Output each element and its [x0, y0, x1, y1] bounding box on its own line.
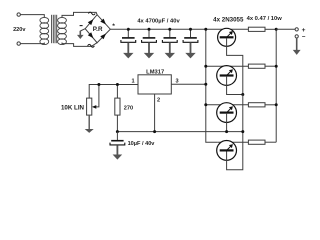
transformer core — [51, 15, 53, 43]
wire secondary top to bridge — [62, 12, 97, 17]
svg-text:LM317: LM317 — [146, 69, 164, 75]
node rail R1 — [275, 28, 278, 31]
transistor Q3 2N3055 — [217, 103, 237, 123]
bridge diode D1 (left-top edge) — [88, 19, 94, 25]
terminal 220v bottom — [17, 42, 20, 45]
node cap C4 junction — [189, 28, 192, 31]
svg-text:4x 0.47 / 10w: 4x 0.47 / 10w — [247, 16, 283, 22]
capacitor C4 4700uF — [190, 29, 192, 37]
resistor R2 0.47 ohm — [248, 64, 265, 68]
capacitor C5 10uF — [116, 132, 118, 140]
svg-text:220v: 220v — [13, 27, 26, 33]
wire pin2 (out) down — [154, 94, 156, 132]
wire collector rail — [206, 29, 218, 142]
bridge diode D4 (bottom-right edge) — [100, 34, 106, 40]
svg-text:−: − — [302, 34, 306, 41]
wire 270 bottom — [116, 115, 118, 132]
node cap C1 junction — [127, 28, 130, 31]
node cap C3 junction — [168, 28, 171, 31]
wire pin3 to collector rail — [171, 83, 206, 85]
ground at bridge minus — [80, 29, 85, 31]
ground at C5 — [113, 155, 123, 160]
node rail top — [204, 28, 207, 31]
ground at minus output — [296, 38, 298, 50]
resistor R4 0.47 ohm — [248, 140, 265, 144]
AC mark bottom — [88, 44, 95, 47]
terminal 220v top — [17, 13, 20, 16]
terminal plus — [295, 28, 298, 31]
wire base Q1 to bus — [227, 38, 243, 94]
bridge rectifier PR body — [85, 15, 110, 43]
wire pot bottom — [88, 115, 90, 129]
svg-text:P.R: P.R — [93, 26, 103, 33]
resistor R5 270 body — [115, 98, 120, 115]
op-amp U1 LM317 body — [138, 75, 171, 94]
wire to plus terminal — [276, 28, 295, 30]
capacitor C2 4700uF — [148, 29, 150, 37]
node 270 top — [116, 83, 119, 86]
transistor Q4 2N3055 — [217, 141, 237, 161]
svg-text:4x 2N3055: 4x 2N3055 — [213, 16, 244, 23]
node rail row2 — [204, 65, 207, 68]
wire base Q4 to bus — [227, 132, 243, 170]
node bus cap — [116, 130, 119, 133]
wire primary top — [21, 15, 45, 18]
wire emitter row 3 — [206, 104, 249, 106]
wire output rail — [275, 29, 277, 142]
AC mark top — [88, 12, 95, 15]
pot wiper — [94, 85, 99, 107]
node bus Q2 — [241, 93, 244, 96]
wire adjust bus — [117, 131, 242, 133]
node rail R2 — [275, 65, 278, 68]
ground at pot — [85, 129, 94, 133]
node bus right — [241, 130, 244, 133]
wire emitter row 4 — [218, 141, 249, 143]
wire primary bottom — [21, 43, 45, 44]
wire base bus middle — [242, 95, 244, 132]
node wiper junction — [97, 83, 100, 86]
transistor Q2 2N3055 — [217, 66, 237, 86]
transistor Q1 2N3055 — [218, 28, 236, 46]
wire 270 top — [116, 85, 118, 99]
wire base Q2 to bus — [227, 77, 243, 95]
node cap C2 junction — [148, 28, 151, 31]
svg-text:1: 1 — [131, 79, 134, 85]
node bus Q3 — [225, 130, 228, 133]
node bus pin2 — [153, 130, 156, 133]
wire pin1 (adj) — [89, 85, 138, 99]
capacitor C1 4700uF — [127, 29, 129, 37]
wire emitter row 2 — [206, 65, 249, 67]
minus mark — [80, 25, 83, 27]
wire +V rail — [110, 28, 248, 30]
bridge diode D3 (left-bottom edge) — [88, 32, 94, 38]
svg-text:270: 270 — [124, 105, 133, 111]
node rail R3 — [275, 103, 278, 106]
resistor R1 0.47 ohm — [248, 27, 265, 31]
svg-text:10K LIN: 10K LIN — [61, 105, 85, 112]
bridge diode D2 (top-right edge) — [100, 19, 106, 25]
wire secondary bottom to bridge — [62, 43, 97, 47]
svg-text:2: 2 — [157, 97, 160, 103]
transformer T1 primary winding — [40, 17, 49, 44]
resistor R3 0.47 ohm — [248, 103, 265, 107]
svg-text:10µF / 40v: 10µF / 40v — [128, 141, 156, 147]
svg-text:3: 3 — [175, 79, 178, 85]
node pin3 rail — [204, 83, 207, 86]
svg-text:4x 4700µF / 40v: 4x 4700µF / 40v — [137, 19, 180, 25]
potentiometer P1 10K LIN body — [87, 98, 92, 115]
wire base Q3 to bus — [226, 114, 228, 132]
transformer T1 secondary winding — [58, 17, 67, 44]
terminal minus — [295, 35, 298, 38]
capacitor C3 4700uF — [169, 29, 171, 37]
node rail row3 — [204, 103, 207, 106]
